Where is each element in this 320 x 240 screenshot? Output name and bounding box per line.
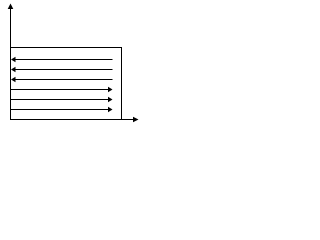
left arrow row 1 [11, 57, 113, 63]
x-axis [10, 117, 139, 123]
box right edge [121, 47, 123, 120]
left arrow row 3 [11, 77, 113, 83]
left arrow row 2 [11, 67, 113, 73]
right arrow row 6 [10, 107, 113, 113]
box top edge [10, 47, 122, 49]
y-axis [8, 4, 14, 120]
right arrow row 5 [10, 97, 113, 103]
right arrow row 4 [10, 87, 113, 93]
